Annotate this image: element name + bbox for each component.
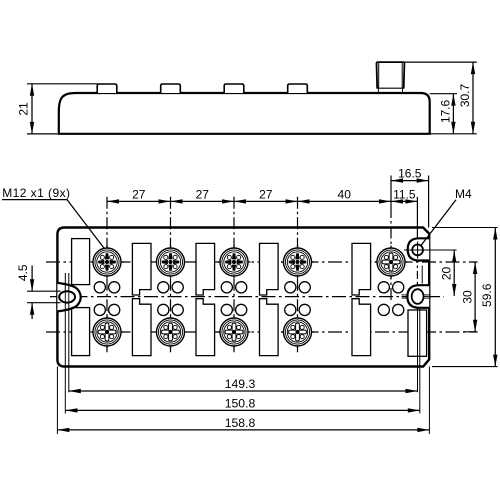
column centerline x=107	[106, 197, 108, 353]
svg-text:M12 x1 (9x): M12 x1 (9x)	[2, 186, 70, 200]
M12 connector bottom col 2 crosshair	[154, 331, 187, 333]
right slot extension lines	[421, 266, 423, 284]
top right mounting ear	[408, 238, 430, 260]
label plate bottom x=352	[352, 299, 371, 356]
row 2 centerline	[46, 331, 478, 333]
ear column centerline	[416, 197, 418, 238]
svg-text:4.5: 4.5	[16, 264, 30, 281]
svg-text:150.8: 150.8	[225, 396, 256, 410]
label plate top x=352	[352, 243, 371, 295]
dimension 30	[463, 331, 477, 333]
dimension 158.8	[57, 429, 429, 431]
M12 connector bottom col 1 crosshair	[91, 331, 124, 333]
svg-text:40: 40	[338, 187, 352, 201]
M12 connector top col 3	[220, 248, 248, 276]
label plate top x=259.5	[260, 243, 279, 295]
M12 connector bottom col 4	[284, 318, 312, 346]
dimension 150.8	[65, 409, 419, 411]
side view connector bump 3	[224, 84, 244, 93]
bottom extension lines	[56, 367, 58, 435]
LED pair col x=107 y=287.3	[94, 282, 105, 293]
svg-text:27: 27	[259, 187, 273, 201]
label plate bottom x=196	[196, 299, 215, 356]
label plate far right bottom	[408, 310, 427, 356]
svg-text:27: 27	[132, 187, 146, 201]
M4 hole crosshair	[404, 249, 457, 251]
svg-text:30: 30	[460, 290, 474, 304]
column centerline x=170.5	[170, 197, 172, 353]
svg-text:59.6: 59.6	[480, 283, 494, 307]
M12 connector top col 2 crosshair	[154, 261, 187, 263]
LED pair col x=391 y=287.3	[378, 282, 389, 293]
row 1 centerline	[46, 261, 478, 263]
dimension 30.7	[405, 61, 477, 63]
M12 connector top col 2	[157, 248, 185, 276]
svg-text:11.5: 11.5	[393, 187, 416, 201]
left mounting ear	[57, 283, 80, 312]
label plate far left bottom	[72, 308, 90, 356]
M12 connector bottom col 4 crosshair	[281, 331, 314, 333]
main horizontal centerline	[50, 296, 444, 298]
svg-text:149.3: 149.3	[225, 377, 256, 391]
M4 screw hole	[412, 245, 423, 256]
M12 connector bottom col 2	[157, 318, 185, 346]
side view body	[59, 93, 430, 134]
side view connector bump 1	[97, 84, 117, 93]
LED pair col x=107 y=309.9	[94, 304, 105, 315]
dimension 16.5	[391, 180, 429, 182]
extension line body right top	[428, 176, 430, 228]
M12 connector bottom col 1	[93, 318, 121, 346]
middle right mounting ear	[407, 285, 429, 308]
LED pair col x=234 y=309.9	[221, 304, 232, 315]
side view connector bump 4	[288, 84, 308, 93]
svg-text:30.7: 30.7	[458, 83, 472, 107]
svg-text:21: 21	[17, 102, 31, 116]
dimension 149.3	[69, 390, 418, 392]
dimension 21	[27, 83, 98, 85]
left ear slot lines	[64, 273, 66, 414]
column centerline x=234	[233, 197, 235, 353]
side view connector bump 2	[161, 84, 181, 93]
svg-text:158.8: 158.8	[225, 416, 256, 430]
left ear slot hole	[59, 291, 75, 302]
front view body	[57, 228, 429, 367]
LED pair col x=170.5 y=309.9	[158, 304, 169, 315]
LED pair col x=297.5 y=309.9	[285, 304, 296, 315]
side view M8 power connector	[376, 62, 404, 88]
svg-text:M4: M4	[455, 187, 472, 201]
LED pair col x=170.5 y=287.3	[158, 282, 169, 293]
M12 connector top col 4 crosshair	[281, 261, 314, 263]
label plate far left top	[72, 239, 90, 285]
M12 connector bottom col 3 crosshair	[218, 331, 251, 333]
column centerline power connector	[390, 176, 392, 207]
dimension chain 27 27 27 40 11.5	[107, 200, 417, 202]
M12 connector top col 4	[284, 248, 312, 276]
dimension 4.5	[27, 290, 61, 292]
M12 connector top col 5 crosshair	[375, 261, 408, 263]
dimension 17.6	[430, 93, 457, 95]
LED pair col x=297.5 y=287.3	[285, 282, 296, 293]
M12 connector bottom col 3	[220, 318, 248, 346]
M12 connector top col 3 crosshair	[218, 261, 251, 263]
svg-text:20: 20	[439, 267, 453, 281]
label plate top x=196	[196, 243, 215, 295]
M12 connector top col 1	[93, 248, 121, 276]
dimension 59.6	[432, 227, 498, 229]
LED pair col x=391 y=309.9	[378, 304, 389, 315]
M12 connector top col 1 crosshair	[91, 261, 124, 263]
svg-text:17.6: 17.6	[438, 99, 452, 123]
svg-text:16.5: 16.5	[398, 166, 422, 180]
LED pair col x=234 y=287.3	[221, 282, 232, 293]
dimension 20	[453, 250, 455, 296]
label plate bottom x=259.5	[260, 299, 279, 356]
label plate top x=132.4	[132, 243, 151, 295]
M12 connector top col 5	[377, 248, 405, 276]
middle ear slot hole	[412, 289, 424, 304]
label plate bottom x=132.4	[132, 299, 151, 356]
svg-text:27: 27	[196, 187, 210, 201]
column centerline x=297.5	[297, 197, 299, 353]
